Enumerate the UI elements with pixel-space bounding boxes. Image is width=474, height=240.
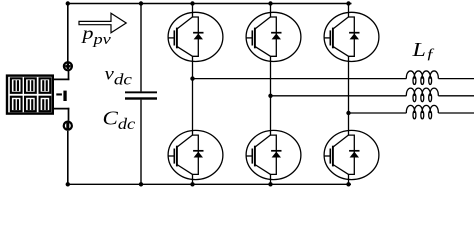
wire: top DC bus	[67, 3, 352, 5]
IGBT module S5 (bottom leg2)	[246, 130, 301, 179]
PV panel cells	[11, 78, 50, 111]
wire: leg1 top lead	[192, 4, 194, 13]
junction dot phase C tap	[346, 111, 350, 115]
terminal: PV plus	[64, 62, 72, 70]
PV cell short plate	[56, 93, 62, 95]
PV panel frame	[7, 76, 53, 114]
wire: minus terminal to bottom bus	[67, 131, 69, 184]
junction dots bottom bus	[66, 182, 351, 186]
PV cell long plate	[63, 91, 66, 101]
arrow: power flow p_pv	[79, 13, 126, 33]
wire: plus terminal to bend	[68, 71, 70, 80]
terminal: PV minus	[64, 122, 72, 130]
junction dot phase A tap	[190, 76, 194, 80]
capacitor Cdc bottom plate	[125, 97, 157, 99]
inductor Lf phase B	[406, 88, 438, 102]
wire: bottom DC bus	[67, 183, 351, 185]
IGBT module S3 (top leg3)	[324, 12, 379, 61]
PV panel cell bars	[14, 80, 48, 110]
junction dot phase B tap	[268, 94, 272, 98]
wire: phase A line	[193, 78, 407, 80]
wire: leg3 bottom lead	[348, 180, 350, 185]
wire: leg2 mid	[270, 61, 272, 130]
wire: bend to panel top output	[53, 78, 70, 80]
wire: phase C line right	[438, 112, 474, 114]
wire: leg3 top lead	[348, 4, 350, 13]
wire: leg1 mid	[192, 61, 194, 130]
wire: phase B line	[271, 95, 407, 97]
wire: panel bottom output to bend	[53, 108, 70, 110]
IGBT module S2 (top leg2)	[246, 12, 301, 61]
svg-text:Lƒ: Lƒ	[411, 38, 434, 62]
svg-text:Cdc: Cdc	[103, 107, 136, 133]
inductor Lf phase C	[406, 105, 438, 119]
IGBT module S6 (bottom leg3)	[324, 130, 379, 179]
wire: leg1 bottom lead	[192, 180, 194, 185]
wire: phase C line	[349, 112, 407, 114]
wire: capacitor branch bottom	[140, 100, 142, 185]
wire: left rail top (PV + to top bus)	[67, 4, 69, 63]
wire: phase A line right	[438, 78, 474, 80]
svg-text:ppv: ppv	[80, 24, 111, 47]
inductor Lf phase A	[406, 71, 438, 85]
wire: leg3 mid	[348, 61, 350, 130]
capacitor Cdc top plate	[125, 91, 157, 93]
wire: leg2 top lead	[270, 4, 272, 13]
IGBT module S4 (bottom leg1)	[168, 130, 223, 179]
svg-text:vdc: vdc	[105, 65, 133, 88]
wire: phase B line right	[438, 95, 474, 97]
IGBT module S1 (top leg1)	[168, 12, 223, 61]
junction dots top bus	[66, 1, 351, 5]
wire: capacitor branch top	[140, 4, 142, 92]
wire: leg2 bottom lead	[270, 180, 272, 185]
wire: bend down to minus terminal	[68, 108, 70, 121]
